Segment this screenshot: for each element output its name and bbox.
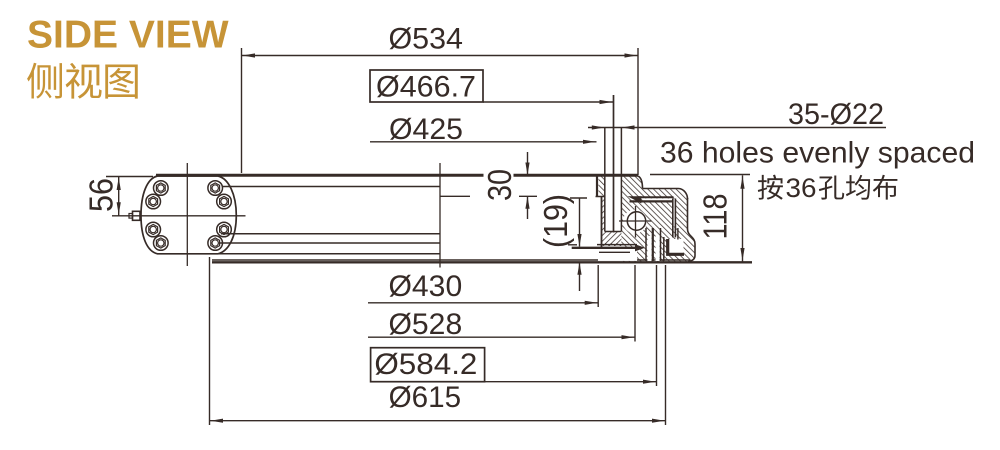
- grease nipple: [129, 211, 140, 220]
- hatch inner ring right of bolt hole: [621, 176, 642, 262]
- outer ring nose arc: [679, 189, 688, 200]
- bottom flange bottom line: [212, 261, 752, 263]
- dimension Ø425: [370, 113, 597, 146]
- body line cap bottom extension: [157, 253, 440, 255]
- dimension Ø615: [210, 257, 666, 425]
- outer ring top face: [643, 188, 679, 190]
- grease channel line B: [652, 228, 654, 261]
- bearing vertical axis center line: [439, 163, 441, 268]
- white joint slot: [673, 199, 675, 227]
- inner ring bottom edge: [597, 244, 637, 246]
- bolt hole right edge: [620, 128, 622, 232]
- hatch below bolt hole: [605, 232, 622, 246]
- bolt hole center line: [613, 95, 615, 233]
- inner ring OD fillet curve: [638, 176, 643, 189]
- dimension (19): [538, 194, 587, 291]
- svg-text:Ø534: Ø534: [389, 23, 464, 56]
- hatch inner ring upper-left strip: [599, 176, 606, 196]
- lower seal line: [572, 247, 636, 249]
- labyrinth gap upper line: [638, 196, 674, 198]
- svg-text:36: 36: [786, 173, 817, 203]
- svg-text:36 holes evenly spaced: 36 holes evenly spaced: [660, 137, 975, 170]
- inner ring left edge lower (Ø430): [601, 197, 603, 248]
- svg-text:56: 56: [84, 178, 121, 212]
- labyrinth gap lower line: [630, 200, 673, 202]
- grease channel line C: [660, 228, 662, 261]
- bolt B3: [208, 181, 223, 196]
- cap horizontal center line: [112, 215, 246, 217]
- body line lower silhouette B: [219, 242, 440, 244]
- svg-text:Ø528: Ø528: [389, 308, 463, 341]
- white grease channel: [648, 236, 652, 261]
- body top line: [156, 174, 638, 177]
- svg-text:35-Ø22: 35-Ø22: [788, 98, 884, 131]
- dimension 118: [650, 175, 750, 262]
- bolt B1: [154, 181, 169, 196]
- inner ring left edge upper (Ø425): [596, 176, 598, 197]
- grease channel line A: [645, 228, 647, 261]
- ball: [627, 212, 645, 230]
- grease channel line D: [663, 237, 665, 261]
- bolt hole bottom: [605, 231, 622, 233]
- dimension 30: [440, 152, 537, 219]
- seal carrier line: [599, 251, 630, 253]
- white gap labyrinth: [643, 198, 673, 200]
- left end cap outline: [141, 176, 236, 254]
- outer ring right edge: [688, 198, 696, 262]
- svg-text:Ø430: Ø430: [389, 270, 463, 303]
- bolt B8: [208, 236, 223, 251]
- dimension Ø584.2 (boxed): [371, 265, 657, 386]
- note 36 holes evenly spaced: [660, 137, 975, 170]
- joint line left: [672, 199, 674, 238]
- white seal retainer pocket: [667, 239, 684, 256]
- svg-text:Ø615: Ø615: [389, 381, 462, 414]
- dimension Ø430: [368, 265, 598, 307]
- bolt B7: [217, 222, 232, 237]
- body line lower silhouette A: [221, 233, 440, 235]
- bolt B2: [146, 194, 161, 209]
- inner ring bore step line: [596, 196, 605, 198]
- svg-text:(19): (19): [538, 194, 575, 248]
- joint line right: [675, 199, 678, 240]
- svg-text:SIDE VIEW: SIDE VIEW: [27, 14, 229, 57]
- dimension Ø466.7 (boxed): [370, 70, 613, 104]
- bottom flange top line: [212, 259, 690, 261]
- svg-text:Ø466.7: Ø466.7: [376, 71, 476, 104]
- title SIDE VIEW: [27, 14, 229, 57]
- note Chinese 按36孔均布: [758, 173, 898, 203]
- upper seal (filled): [628, 196, 642, 203]
- bolt B6: [154, 236, 169, 251]
- dimension Ø534: [242, 23, 639, 176]
- dimension Ø528: [368, 265, 635, 342]
- bolt B4: [217, 194, 232, 209]
- ball vertical center line (raceway Ø528): [635, 206, 637, 238]
- title Chinese 侧视图: [27, 63, 138, 99]
- svg-text:Ø425: Ø425: [389, 113, 463, 146]
- raceway white gap around ball: [623, 210, 647, 234]
- hatch outer ring nose band: [643, 189, 696, 262]
- lower seal arrow tip: [635, 244, 645, 251]
- svg-text:Ø584.2: Ø584.2: [374, 348, 477, 381]
- body line upper silhouette: [223, 186, 440, 188]
- ball horizontal center line: [619, 220, 652, 222]
- seal retainer L-profile: [668, 239, 684, 254]
- dimension 56: [84, 177, 154, 216]
- hatch inner ring left-bottom block: [602, 197, 622, 247]
- cap vertical center line: [186, 163, 188, 266]
- white below inner ring bottom: [598, 249, 637, 261]
- dimension leader 35-Ø22: [588, 98, 886, 131]
- bolt B5: [146, 222, 161, 237]
- bolt hole left edge: [604, 128, 606, 232]
- svg-text:30: 30: [482, 169, 519, 201]
- svg-text:118: 118: [698, 194, 735, 240]
